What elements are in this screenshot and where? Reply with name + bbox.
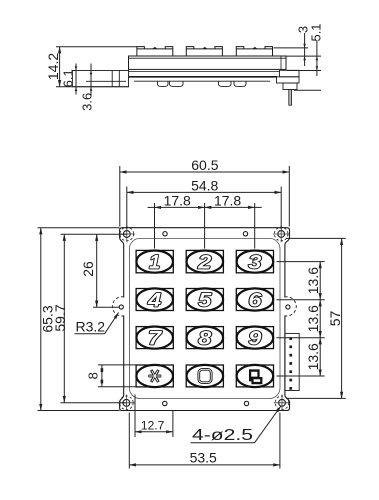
dimension 26 — [93, 234, 120, 307]
svg-text:54.8: 54.8 — [191, 178, 218, 194]
dimension 3.6 — [90, 64, 93, 96]
svg-text:26: 26 — [80, 261, 96, 277]
right ear bump (phantom) — [285, 297, 297, 316]
dimension 3 — [274, 33, 322, 66]
front plate outline upper — [120, 228, 290, 298]
small hole top-left — [163, 232, 167, 236]
svg-text:59.7: 59.7 — [52, 304, 68, 331]
svg-text:8: 8 — [198, 329, 212, 350]
svg-text:13.6: 13.6 — [305, 305, 321, 332]
dimension 8 — [98, 365, 136, 387]
SIDE VIEW — [72, 47, 321, 106]
leader 4-phi2.5 — [191, 406, 281, 443]
svg-text:7: 7 — [148, 329, 163, 350]
left ear hole — [119, 305, 123, 309]
svg-text:1: 1 — [149, 253, 160, 274]
corner hole top-left — [119, 226, 136, 243]
svg-text:17.8: 17.8 — [214, 193, 241, 209]
svg-text:9: 9 — [248, 329, 262, 350]
svg-text:13.6: 13.6 — [305, 267, 321, 294]
corner hole bottom-left — [118, 395, 135, 412]
key 6 — [236, 288, 273, 311]
small hole top-right — [243, 232, 247, 236]
svg-text:14.2: 14.2 — [45, 53, 61, 80]
corner hole bottom-right — [274, 395, 291, 412]
small hole bottom-left — [163, 401, 167, 405]
KEYS — [136, 250, 273, 387]
key 3 — [236, 250, 273, 273]
key star — [136, 365, 173, 387]
dimension 6.1 — [75, 64, 78, 95]
svg-text:3: 3 — [248, 253, 262, 274]
bezel outline — [129, 238, 280, 398]
small hole bottom-right — [244, 401, 248, 405]
key 1 — [136, 250, 173, 273]
svg-text:5.1: 5.1 — [309, 23, 324, 41]
dimension 13.6 chain — [277, 262, 325, 376]
key 7 — [136, 327, 173, 350]
dimension 60.5 — [120, 166, 289, 227]
svg-text:R3.2: R3.2 — [76, 319, 106, 335]
svg-text:12.7: 12.7 — [141, 418, 165, 432]
key 8 — [186, 327, 223, 350]
dimension 65.3 — [38, 228, 120, 411]
svg-text:4: 4 — [147, 290, 162, 311]
dimension 14.2 — [56, 47, 137, 87]
side view keycap 1 — [137, 47, 173, 56]
DIMENSIONS — [38, 33, 346, 469]
side view connector pin — [289, 90, 292, 106]
key 0 — [186, 365, 223, 387]
side view keycap 3 — [236, 47, 272, 56]
dimension 5.1 — [287, 40, 322, 76]
side view keycap 2 — [186, 47, 222, 56]
svg-text:60.5: 60.5 — [191, 157, 218, 173]
svg-text:13.6: 13.6 — [305, 343, 321, 370]
side view left mounting tab — [72, 71, 128, 87]
svg-text:8: 8 — [86, 372, 101, 379]
key 2 — [186, 250, 223, 273]
leader R3.2 — [75, 313, 119, 334]
dimension 17.8 pair — [148, 203, 262, 249]
key 9 — [236, 327, 273, 350]
svg-text:6: 6 — [248, 290, 262, 311]
svg-text:6.1: 6.1 — [61, 69, 76, 87]
key 4 — [136, 288, 173, 311]
side view connector — [277, 70, 300, 89]
right ear hole — [286, 305, 290, 309]
front plate outline lower — [120, 315, 290, 410]
svg-text:3.6: 3.6 — [80, 93, 95, 111]
front connector body — [285, 333, 299, 390]
front connector pins — [289, 337, 292, 390]
svg-text:5: 5 — [198, 290, 212, 311]
svg-text:53.5: 53.5 — [190, 449, 217, 465]
side view pcb — [129, 72, 280, 82]
connector bottom extension line — [294, 89, 321, 91]
svg-text:57: 57 — [327, 311, 343, 327]
dimension 12.7 — [135, 395, 173, 438]
dimension 53.5 — [129, 413, 280, 469]
side view front plate — [129, 56, 287, 69]
corner hole top-right — [273, 226, 290, 243]
dimension 57 — [286, 238, 346, 398]
dimension 59.7 — [61, 234, 127, 403]
svg-text:17.8: 17.8 — [164, 193, 191, 209]
svg-text:4-ø2.5: 4-ø2.5 — [192, 427, 253, 444]
svg-text:2: 2 — [197, 253, 212, 274]
key hash — [236, 365, 273, 387]
key 5 — [186, 288, 223, 311]
side view solder bumps — [158, 81, 247, 86]
left ear bump (phantom) — [112, 297, 124, 316]
FRONT VIEW — [112, 226, 299, 411]
dimension 54.8 — [127, 187, 281, 230]
